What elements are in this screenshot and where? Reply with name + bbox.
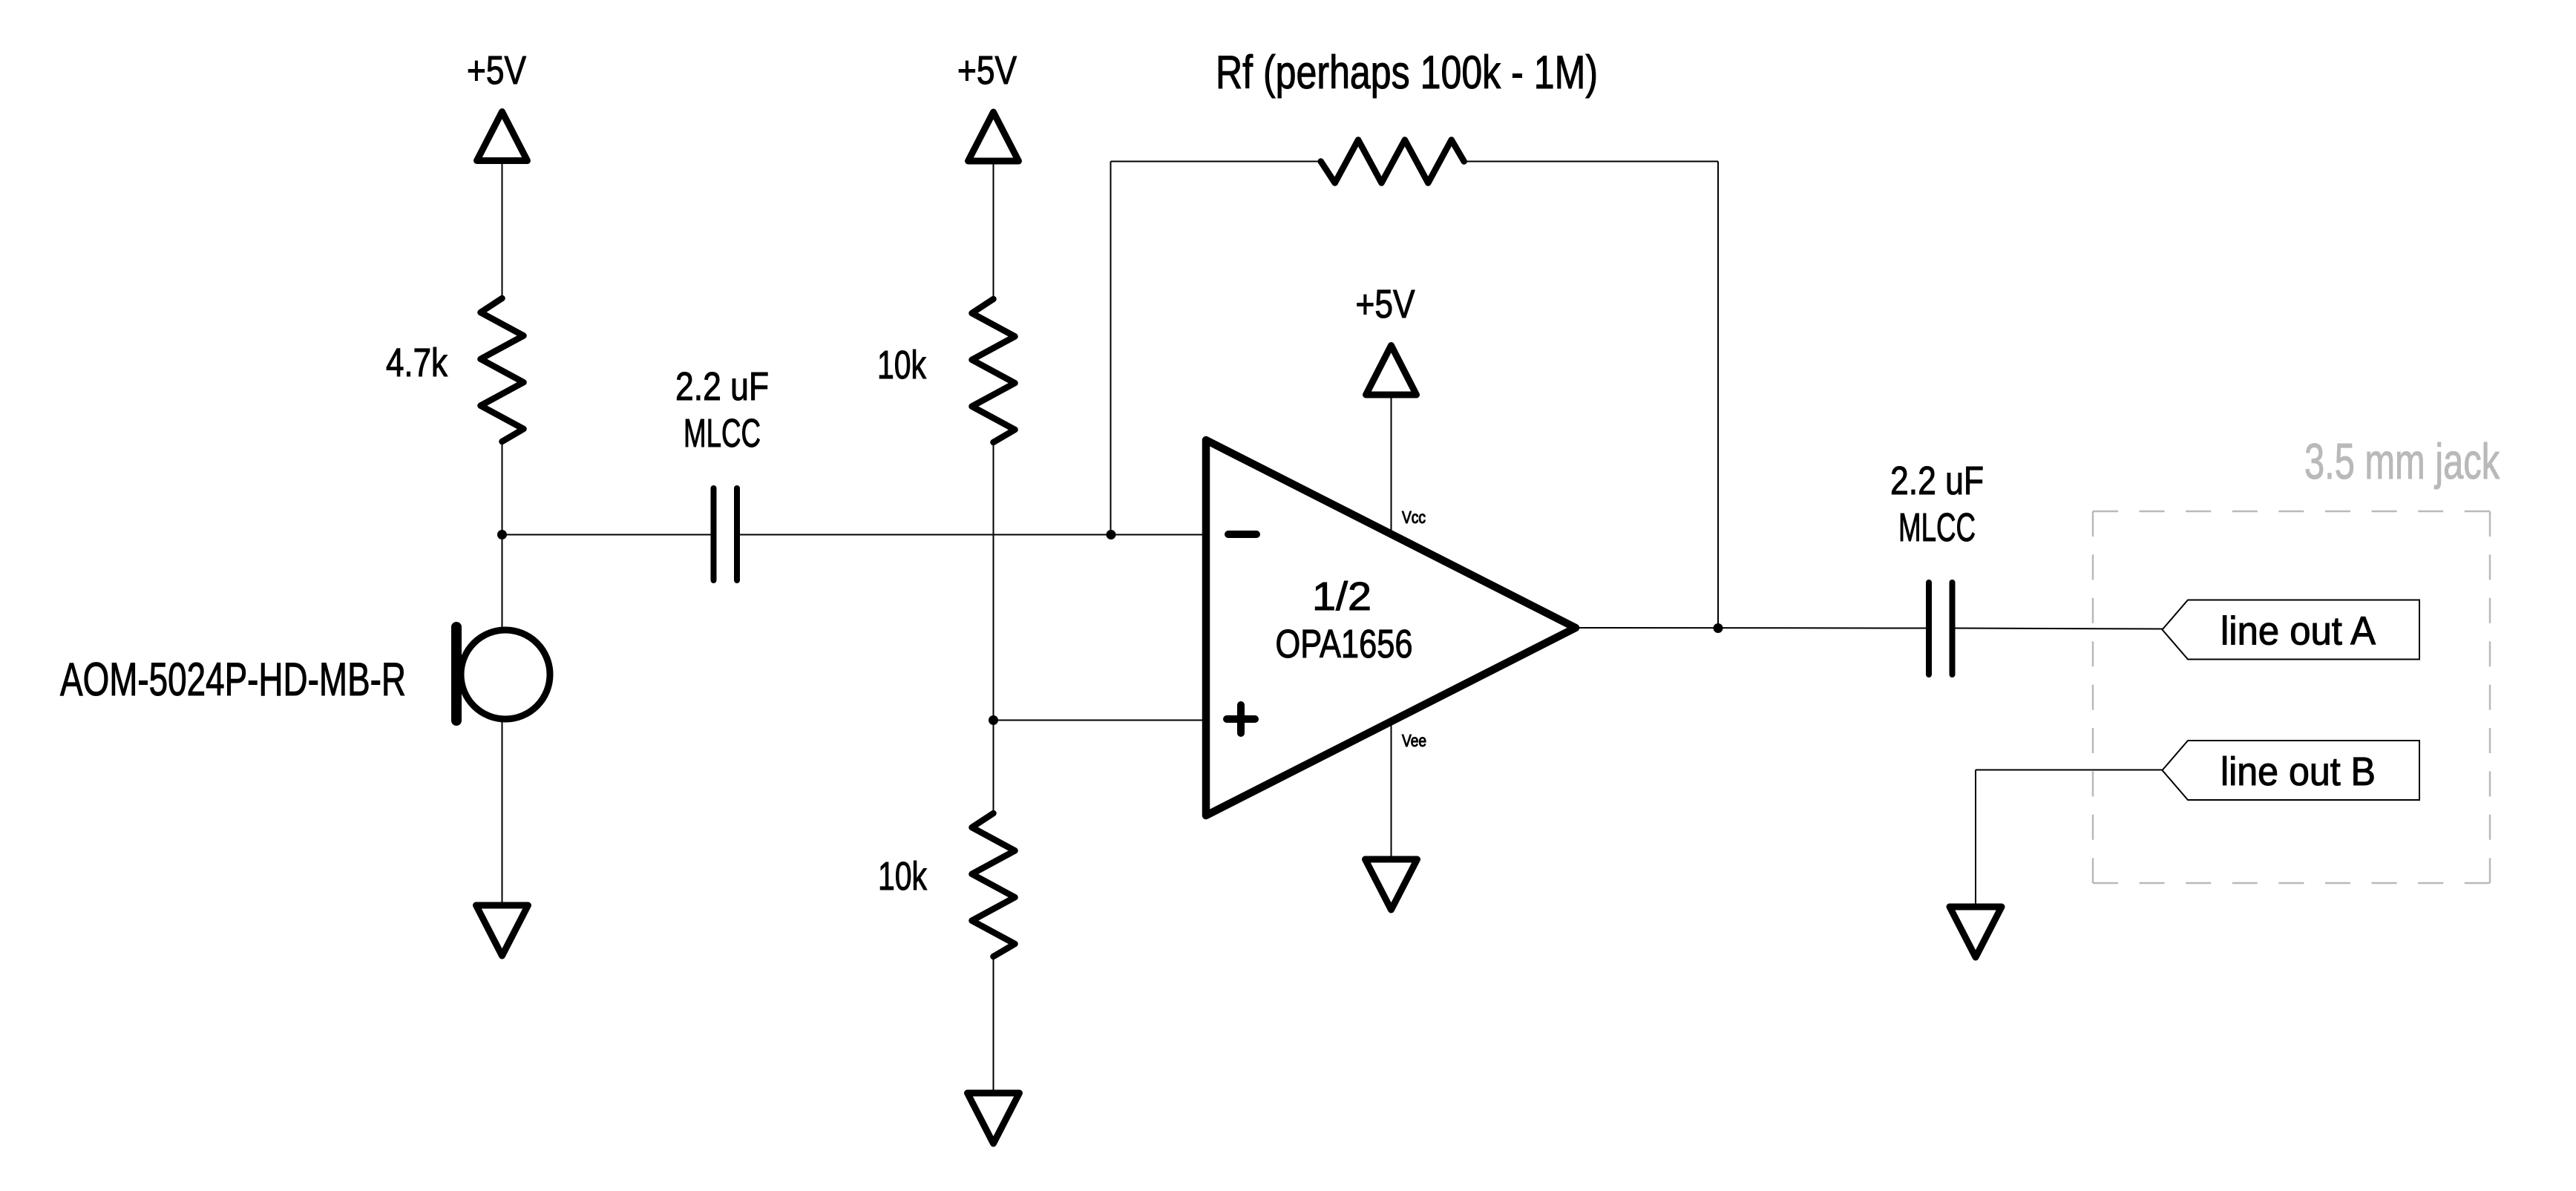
junction node mic/cap	[497, 530, 507, 539]
wire Vee stub	[1391, 721, 1392, 859]
wire Vcc stub	[1391, 395, 1392, 534]
wire op-amp output	[1576, 627, 1926, 629]
svg-text:Rf (perhaps 100k - 1M): Rf (perhaps 100k - 1M)	[1216, 47, 1598, 99]
resistor Rf (perhaps 100k - 1M)	[1216, 47, 1598, 183]
wire divider node to R3 top	[993, 721, 994, 814]
svg-text:4.7k: 4.7k	[386, 341, 448, 385]
svg-text:+5V: +5V	[1356, 282, 1415, 327]
flag line out A	[2163, 600, 2420, 660]
wire line out B vertical to ground	[1975, 770, 1976, 908]
svg-text:+5V: +5V	[467, 48, 526, 93]
wire +5V to R2 top	[993, 161, 994, 299]
dashed box 3.5 mm jack	[2093, 433, 2500, 883]
wire R1 bottom to mic node	[502, 442, 503, 535]
wire C1 to op-amp inverting input	[740, 534, 1206, 536]
wire node to C1	[502, 534, 711, 536]
svg-text:Vcc: Vcc	[1402, 508, 1426, 527]
wire feedback vertical left	[1110, 162, 1112, 535]
flag line out B	[2163, 741, 2420, 800]
resistor R3 10k (lower)	[878, 813, 1015, 957]
capacitor C2 2.2 uF MLCC	[1890, 459, 1984, 675]
resistor R1 4.7k	[386, 298, 524, 442]
wire node to mic	[502, 535, 503, 629]
wire feedback vertical right	[1717, 162, 1719, 629]
power +5V symbol (mic branch)	[467, 48, 528, 161]
junction node divider mid	[989, 715, 998, 725]
junction node feedback/inverting input	[1107, 530, 1116, 539]
power +5V symbol (op-amp Vcc)	[1356, 282, 1417, 395]
ground (mic)	[476, 905, 528, 956]
ground (line out B)	[1950, 907, 2002, 957]
ground (op-amp Vee)	[1366, 859, 1418, 910]
svg-text:1/2: 1/2	[1312, 574, 1371, 619]
svg-text:10k: 10k	[877, 343, 927, 387]
svg-text:10k: 10k	[878, 854, 928, 899]
wire +5V to R1 top	[502, 161, 503, 299]
svg-text:2.2 uF: 2.2 uF	[1890, 459, 1984, 503]
plus input symbol	[1227, 715, 1255, 723]
capacitor C1 2.2 uF MLCC	[675, 364, 769, 580]
svg-text:MLCC: MLCC	[684, 411, 761, 456]
wire C2 to line out A flag	[1956, 629, 2163, 629]
power +5V symbol (divider)	[957, 48, 1019, 161]
microphone AOM-5024P-HD-MB-R	[60, 627, 550, 721]
minus input symbol	[1228, 531, 1256, 538]
op-amp U1 1/2 OPA1656	[1206, 440, 1576, 816]
wire divider node to op-amp non-inverting input	[994, 720, 1207, 721]
svg-text:MLCC: MLCC	[1898, 505, 1976, 550]
wire mic to ground	[502, 722, 503, 905]
wire R3 bottom to ground	[993, 957, 994, 1093]
svg-text:line out B: line out B	[2221, 749, 2376, 794]
wire R2 bottom to divider node (crosses inverting wire)	[993, 442, 994, 721]
svg-text:+5V: +5V	[957, 48, 1017, 93]
svg-text:3.5 mm jack: 3.5 mm jack	[2304, 433, 2500, 490]
resistor R2 10k (upper)	[877, 299, 1015, 442]
wire feedback top right	[1464, 161, 1718, 163]
wire line out B to corner	[1976, 770, 2163, 771]
svg-text:AOM-5024P-HD-MB-R: AOM-5024P-HD-MB-R	[60, 654, 406, 706]
svg-text:OPA1656: OPA1656	[1276, 622, 1413, 666]
junction node output/feedback	[1714, 623, 1723, 633]
svg-text:2.2 uF: 2.2 uF	[675, 364, 769, 409]
ground (divider)	[968, 1093, 1020, 1144]
svg-text:Vee: Vee	[1402, 731, 1426, 750]
svg-text:line out A: line out A	[2221, 609, 2376, 654]
wire feedback top left	[1111, 161, 1321, 163]
